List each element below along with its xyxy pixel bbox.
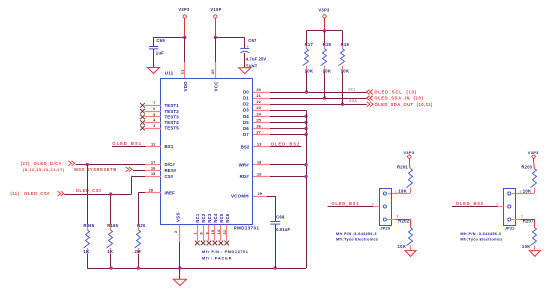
power symbol V3P3 (R201) (403, 150, 414, 163)
svg-text:RD#: RD# (240, 174, 250, 179)
svg-text:0.01uF: 0.01uF (276, 227, 290, 232)
svg-text:29: 29 (258, 191, 263, 196)
wire V3P3 down to pin 11 (184, 37, 186, 62)
svg-text:PMD13701: PMD13701 (234, 225, 260, 230)
svg-text:10K: 10K (523, 188, 532, 193)
wire D1/SDA_IN row (270, 98, 366, 100)
svg-text:26: 26 (256, 124, 261, 129)
pin 1 NC1 (no connect) (194, 213, 201, 245)
svg-text:OLED_SDA_IN (10): OLED_SDA_IN (10) (374, 96, 423, 101)
node D7 bus junction (304, 133, 307, 136)
node D/C# junction to R365 (86, 163, 89, 166)
ground below R207 (529, 251, 540, 257)
svg-text:OLED_CS#: OLED_CS# (24, 191, 50, 196)
svg-text:OLED_BS1: OLED_BS1 (112, 141, 142, 146)
svg-text:Mfr P/N : PMD13701: Mfr P/N : PMD13701 (202, 250, 248, 254)
svg-text:R201: R201 (397, 164, 408, 169)
net OLED_BS1 to JP23 pin 2 (328, 201, 380, 206)
svg-text:23: 23 (256, 105, 261, 110)
svg-text:VCC: VCC (213, 81, 218, 92)
port OLED_CS# input (10, 191, 64, 196)
svg-text:D7: D7 (243, 132, 249, 137)
svg-text:OLED_SDA_OUT (10,11): OLED_SDA_OUT (10,11) (375, 102, 433, 107)
wire SYSRESETB to pin 16 (133, 170, 145, 172)
resistor R207 10K (522, 219, 537, 251)
label Mfr of U11 (202, 250, 248, 260)
node D5 bus junction (304, 121, 307, 124)
pin 4 TEST4 (no connect) (140, 118, 179, 126)
node C68 rail junction (274, 266, 277, 269)
pin 19 RD# (240, 171, 306, 179)
wire data bus vertical to VSS rail (306, 110, 308, 268)
wire pullup top rail (307, 30, 343, 32)
svg-text:D3: D3 (243, 108, 249, 113)
node RD# bus junction (304, 175, 307, 178)
wire D0/SCL row (270, 92, 366, 94)
resistor R17 10K (303, 31, 314, 92)
svg-text:BS1: BS1 (165, 144, 174, 149)
svg-text:SDA: SDA (349, 99, 357, 103)
ground symbol main rail (173, 268, 186, 286)
wire D6 row (270, 128, 306, 130)
svg-text:1: 1 (395, 189, 397, 193)
svg-text:10K: 10K (305, 69, 314, 74)
svg-text:20: 20 (256, 87, 261, 92)
node R20 rail junction (137, 266, 140, 269)
svg-text:NC2: NC2 (201, 213, 206, 223)
pin 21 D1 stub (243, 93, 270, 101)
resistor R19 10K (339, 31, 350, 104)
pin 17 D/C# stub (145, 159, 175, 167)
resistor R18 10K (321, 31, 332, 98)
svg-text:IREF: IREF (165, 190, 176, 195)
pin 12 BS1 / net OLED_BS1 (112, 141, 174, 149)
svg-text:4.7uF 25V: 4.7uF 25V (246, 57, 267, 62)
svg-text:OLED_BS1: OLED_BS1 (331, 201, 359, 206)
pin 8 NC2 (no connect) (199, 213, 206, 245)
svg-text:R19: R19 (341, 42, 350, 47)
node R17 tap (305, 90, 308, 93)
svg-text:30: 30 (210, 69, 215, 75)
pin 15 CS# stub (145, 171, 174, 179)
pin 9 NC3 (no connect) (205, 213, 212, 245)
connector JP22 (504, 189, 516, 231)
wire OLED_D/C# to pin 17 (76, 164, 146, 166)
node V10P/VCC junction (214, 36, 217, 39)
pin 3 TEST5 (no connect) (140, 123, 179, 131)
svg-text:V3P3: V3P3 (528, 150, 539, 155)
wire D4 row (270, 116, 306, 118)
pin 30 VCC stub (210, 62, 215, 79)
svg-text:1: 1 (194, 232, 198, 234)
svg-text:9: 9 (205, 232, 209, 234)
svg-text:D1: D1 (243, 96, 249, 101)
pin 6 TEST2 (no connect) (140, 106, 179, 114)
resistor R202 10K (398, 219, 413, 251)
svg-text:U11: U11 (165, 71, 174, 76)
svg-text:1: 1 (519, 189, 521, 193)
capacitor C69 (149, 37, 165, 67)
pin 29 VCOMH (231, 191, 275, 199)
svg-text:C68: C68 (276, 214, 285, 219)
port OLED_SDA_OUT output (367, 102, 433, 107)
resistor R203 10K (521, 163, 536, 193)
pin 5 TEST3 (no connect) (140, 112, 179, 120)
svg-text:D2: D2 (243, 102, 249, 107)
svg-text:25: 25 (256, 117, 261, 122)
svg-text:OLED_BS2: OLED_BS2 (271, 142, 301, 147)
svg-text:RES#: RES# (165, 168, 177, 173)
wire V3P3 to C69 (154, 37, 185, 39)
svg-text:TEST1: TEST1 (165, 103, 180, 108)
svg-text:11: 11 (180, 69, 185, 74)
ground below C69 (148, 68, 160, 74)
svg-text:16: 16 (151, 165, 156, 170)
svg-text:SCL: SCL (348, 88, 356, 92)
svg-text:TEST3: TEST3 (165, 115, 180, 120)
svg-text:D0: D0 (243, 90, 249, 95)
svg-text:Mfr:Tyco Electronics: Mfr:Tyco Electronics (336, 238, 378, 242)
svg-text:VSS: VSS (176, 212, 181, 222)
pin 27 D7 stub (243, 130, 270, 138)
svg-text:TEST4: TEST4 (165, 120, 180, 125)
svg-text:JP22: JP22 (505, 226, 516, 231)
node VSS rail junction (178, 266, 181, 269)
svg-text:2: 2 (372, 202, 374, 206)
pin 26 D6 stub (243, 124, 270, 132)
svg-text:OLED_SCL (10): OLED_SCL (10) (374, 90, 417, 95)
pin 25 D5 stub (243, 117, 270, 125)
wire R201 to JP23 pin 1 (388, 193, 411, 195)
pin 2 VSS (174, 225, 179, 268)
wire V10P to C67 (215, 37, 245, 39)
svg-text:NC4: NC4 (213, 213, 218, 223)
svg-text:JP23: JP23 (380, 226, 391, 231)
wire D5 row (270, 122, 306, 124)
svg-text:D4: D4 (243, 114, 249, 119)
svg-text:CS#: CS# (165, 174, 174, 179)
svg-text:10K: 10K (341, 69, 350, 74)
svg-text:NC5: NC5 (219, 213, 224, 223)
power symbol V3P3 (U11 VDD) (178, 7, 190, 37)
resistor R20 2M (135, 223, 146, 268)
svg-text:R165: R165 (107, 223, 118, 228)
svg-text:VCOMH: VCOMH (231, 194, 249, 199)
pin 13 BS2 / net OLED_BS2 (241, 142, 302, 150)
svg-text:+: + (247, 45, 249, 49)
wire D7 row (270, 134, 306, 136)
svg-text:10K: 10K (398, 188, 407, 193)
svg-text:D5: D5 (243, 120, 249, 125)
svg-text:R203: R203 (521, 164, 532, 169)
svg-text:19: 19 (257, 171, 262, 176)
node R18 tap (323, 96, 326, 99)
svg-text:D/C#: D/C# (165, 162, 176, 167)
svg-text:R207: R207 (523, 219, 534, 224)
pin 16 RES# stub (145, 165, 177, 173)
svg-text:10: 10 (211, 230, 215, 235)
label Mfr of JP23 (336, 232, 378, 242)
pin 23 D3 stub (243, 105, 270, 113)
svg-text:TEST5: TEST5 (165, 126, 180, 131)
wire D2/SDA row (270, 104, 367, 106)
wire R203 to JP22 pin 1 (512, 193, 535, 195)
node V3P3/VDD junction (183, 36, 186, 39)
svg-text:Mfr: PACER: Mfr: PACER (202, 256, 232, 260)
svg-text:13: 13 (257, 142, 262, 147)
svg-text:OLED_D/C#: OLED_D/C# (34, 161, 62, 166)
svg-text:NC3: NC3 (207, 213, 212, 223)
svg-text:2: 2 (496, 202, 498, 206)
svg-text:15: 15 (151, 171, 156, 176)
svg-text:10K: 10K (398, 244, 407, 249)
svg-text:V10P: V10P (210, 7, 221, 12)
svg-text:18: 18 (257, 160, 262, 165)
ground below R202 (405, 251, 416, 257)
svg-text:2M: 2M (135, 249, 142, 254)
svg-text:R365: R365 (83, 223, 94, 228)
svg-text:V3P3: V3P3 (403, 150, 414, 155)
svg-text:24: 24 (256, 111, 261, 116)
pin 28 IREF stub (145, 187, 175, 195)
svg-text:27: 27 (256, 130, 261, 135)
svg-text:8: 8 (199, 232, 203, 234)
svg-text:R20: R20 (137, 223, 146, 228)
svg-text:D6: D6 (243, 126, 249, 131)
svg-text:NC6: NC6 (225, 213, 230, 223)
svg-text:(11): (11) (10, 191, 19, 196)
svg-text:22: 22 (256, 99, 261, 104)
svg-text:Mfr P/N :3-644456-3: Mfr P/N :3-644456-3 (336, 232, 377, 236)
svg-text:14: 14 (217, 229, 221, 234)
pin 10 NC4 (no connect) (211, 213, 218, 245)
ground below C67 (239, 68, 251, 74)
node R19 tap (341, 103, 344, 106)
svg-text:(8,12,15,20,21,27): (8,12,15,20,21,27) (23, 167, 65, 172)
svg-text:NC1: NC1 (195, 213, 200, 223)
svg-text:Mfr:Tyco Electronics: Mfr:Tyco Electronics (460, 238, 502, 242)
svg-text:C67: C67 (248, 38, 257, 43)
wire IREF to R20 (138, 192, 145, 194)
wire ground rail VSS net (87, 268, 306, 270)
pin 3 of JP22 to R207 (511, 215, 535, 220)
svg-text:21: 21 (256, 93, 261, 98)
power symbol V3P3 (R203) (528, 150, 539, 163)
svg-text:MSS SYSRESETB: MSS SYSRESETB (74, 167, 117, 172)
svg-text:OLED_BS2: OLED_BS2 (456, 201, 484, 206)
capacitor C68 0.01uF (270, 196, 290, 268)
svg-text:TEST2: TEST2 (165, 109, 180, 114)
node R165 rail junction (109, 266, 112, 269)
resistor R365 1K (83, 165, 94, 268)
svg-text:Mfr P/N :3-644456-3: Mfr P/N :3-644456-3 (460, 232, 501, 236)
node V3P3 pullup junction (323, 29, 326, 32)
svg-text:R202: R202 (398, 219, 409, 224)
wire D3 row (270, 110, 306, 112)
node CS# junction to R165 (109, 192, 112, 195)
node D4 bus junction (304, 115, 307, 118)
wire V10P down to pin 30 (215, 37, 217, 62)
node WR# bus junction (304, 163, 307, 166)
capacitor C67 4.7uF 25V TANT (240, 37, 266, 68)
svg-text:10K: 10K (522, 244, 531, 249)
wire CS# riser to pin 15 (131, 176, 133, 194)
node D6 bus junction (304, 127, 307, 130)
pin 22 D2 stub (243, 99, 270, 107)
pin 14 NC5 (no connect) (217, 213, 224, 245)
pin 11 VDD stub (180, 62, 185, 79)
port OLED_SDA_IN input (366, 96, 423, 101)
svg-text:R17: R17 (305, 42, 314, 47)
svg-text:2: 2 (174, 231, 178, 233)
pin 7 TEST1 (no connect) (140, 100, 179, 108)
svg-text:1K: 1K (83, 249, 89, 254)
connector JP23 (380, 189, 392, 231)
svg-text:(27): (27) (21, 161, 30, 166)
power symbol V3P3 (pullups) (318, 8, 330, 31)
svg-text:17: 17 (151, 159, 156, 164)
resistor R165 1K (107, 194, 119, 268)
pin 20 D0 stub (243, 87, 270, 95)
op IC U11 PMD13701 body (161, 71, 260, 231)
net OLED_BS2 to JP22 pin 2 (452, 201, 504, 206)
resistor R201 10K (397, 163, 413, 193)
power symbol V10P (U11 VCC) (210, 7, 221, 37)
pin 24 D4 stub (243, 111, 270, 119)
svg-text:28: 28 (149, 187, 154, 192)
port MSS_SYSRESETB input (23, 167, 132, 172)
svg-text:10K: 10K (323, 69, 332, 74)
port OLED_D/C# input (21, 161, 75, 166)
svg-text:1K: 1K (107, 249, 113, 254)
pin 31 NC6 (no connect) (223, 213, 230, 245)
svg-text:12: 12 (151, 141, 156, 146)
svg-text:R18: R18 (323, 42, 332, 47)
svg-text:VDD: VDD (183, 81, 188, 91)
wire OLED_CS# horizontal (64, 188, 131, 194)
port OLED_SCL output (366, 90, 416, 95)
svg-text:V3P3: V3P3 (178, 7, 190, 12)
svg-text:BS2: BS2 (241, 144, 250, 149)
svg-text:WR#: WR# (239, 162, 250, 167)
svg-text:1uF: 1uF (156, 50, 164, 55)
svg-text:C69: C69 (157, 38, 166, 43)
pin 18 WR# (239, 160, 306, 168)
svg-text:OLED_CS#: OLED_CS# (76, 188, 102, 193)
label Mfr of JP22 (460, 232, 502, 242)
svg-text:V3P3: V3P3 (318, 8, 330, 13)
svg-text:31: 31 (223, 230, 227, 235)
pin 3 of JP23 to R202 (386, 215, 410, 220)
